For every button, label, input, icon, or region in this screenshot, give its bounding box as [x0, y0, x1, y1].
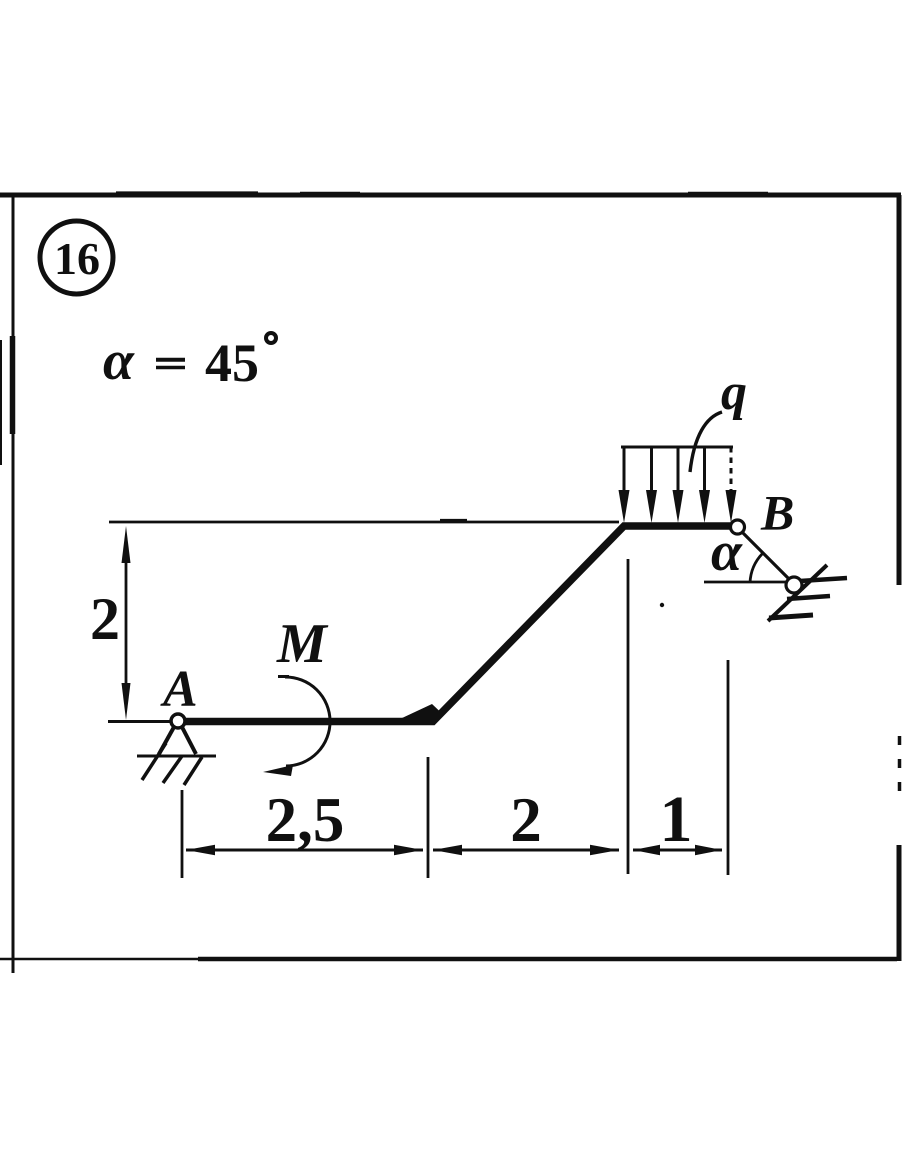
inclined wall line: [768, 565, 827, 621]
roller support circle at B link: [786, 577, 802, 593]
hatching at A: [142, 743, 166, 780]
ground line at A: [137, 755, 216, 758]
beam: bottom chord, diagonal, top chord: [177, 526, 731, 722]
frame bottom border: [0, 958, 200, 961]
load arrow 2: [650, 447, 653, 500]
svg-text:2,5: 2,5: [266, 785, 345, 855]
svg-text:16: 16: [54, 233, 100, 284]
svg-text:1: 1: [660, 783, 693, 856]
extension line below A: [181, 790, 184, 878]
node B pin circle: [731, 520, 745, 534]
pin support A: [171, 714, 185, 728]
svg-text:A: A: [160, 661, 198, 718]
distributed load q top line: [621, 446, 733, 449]
extension line below bottom bend: [427, 757, 430, 878]
horizontal reference for angle alpha: [704, 581, 787, 584]
link rod at B: [742, 532, 791, 581]
moment arrowhead: [263, 765, 293, 776]
extension line below top bend: [627, 559, 630, 874]
circled figure number 16: [40, 221, 113, 294]
load arrow 3: [677, 447, 680, 500]
vertical dimension line 2: [125, 540, 128, 706]
dimension line 1: [633, 849, 722, 852]
wall hatch 2: [787, 596, 830, 599]
degree mark: [266, 333, 276, 343]
extension line below B: [727, 660, 730, 875]
load arrow 4: [703, 447, 706, 500]
frame left border: [12, 196, 15, 973]
bend wedge bottom: [401, 704, 441, 725]
svg-text:B: B: [760, 485, 794, 541]
dimension line 2: [433, 849, 619, 852]
svg-text:α: α: [103, 330, 135, 392]
artifact dash on reference line: [440, 519, 467, 522]
frame top border: [0, 193, 901, 198]
q leader line: [690, 412, 722, 472]
wall hatch 3: [769, 615, 813, 618]
svg-text:M: M: [276, 613, 329, 675]
svg-text:α: α: [711, 521, 743, 583]
svg-text:2: 2: [90, 586, 120, 652]
load arrow 1: [623, 447, 626, 500]
dimension line 2,5: [186, 849, 423, 852]
thin beam stub left of A: [108, 720, 177, 723]
svg-text:45: 45: [205, 333, 259, 393]
stray dot artifact: [660, 603, 664, 607]
svg-text:2: 2: [510, 785, 542, 855]
frame right border: [897, 195, 902, 585]
load arrow 5: [730, 447, 733, 500]
edge artifact left: [0, 340, 2, 465]
angle alpha arc: [750, 553, 763, 583]
moment arc: [278, 675, 289, 678]
top reference line: [109, 521, 619, 524]
wall hatch 1: [800, 578, 847, 581]
svg-text:q: q: [721, 364, 747, 421]
